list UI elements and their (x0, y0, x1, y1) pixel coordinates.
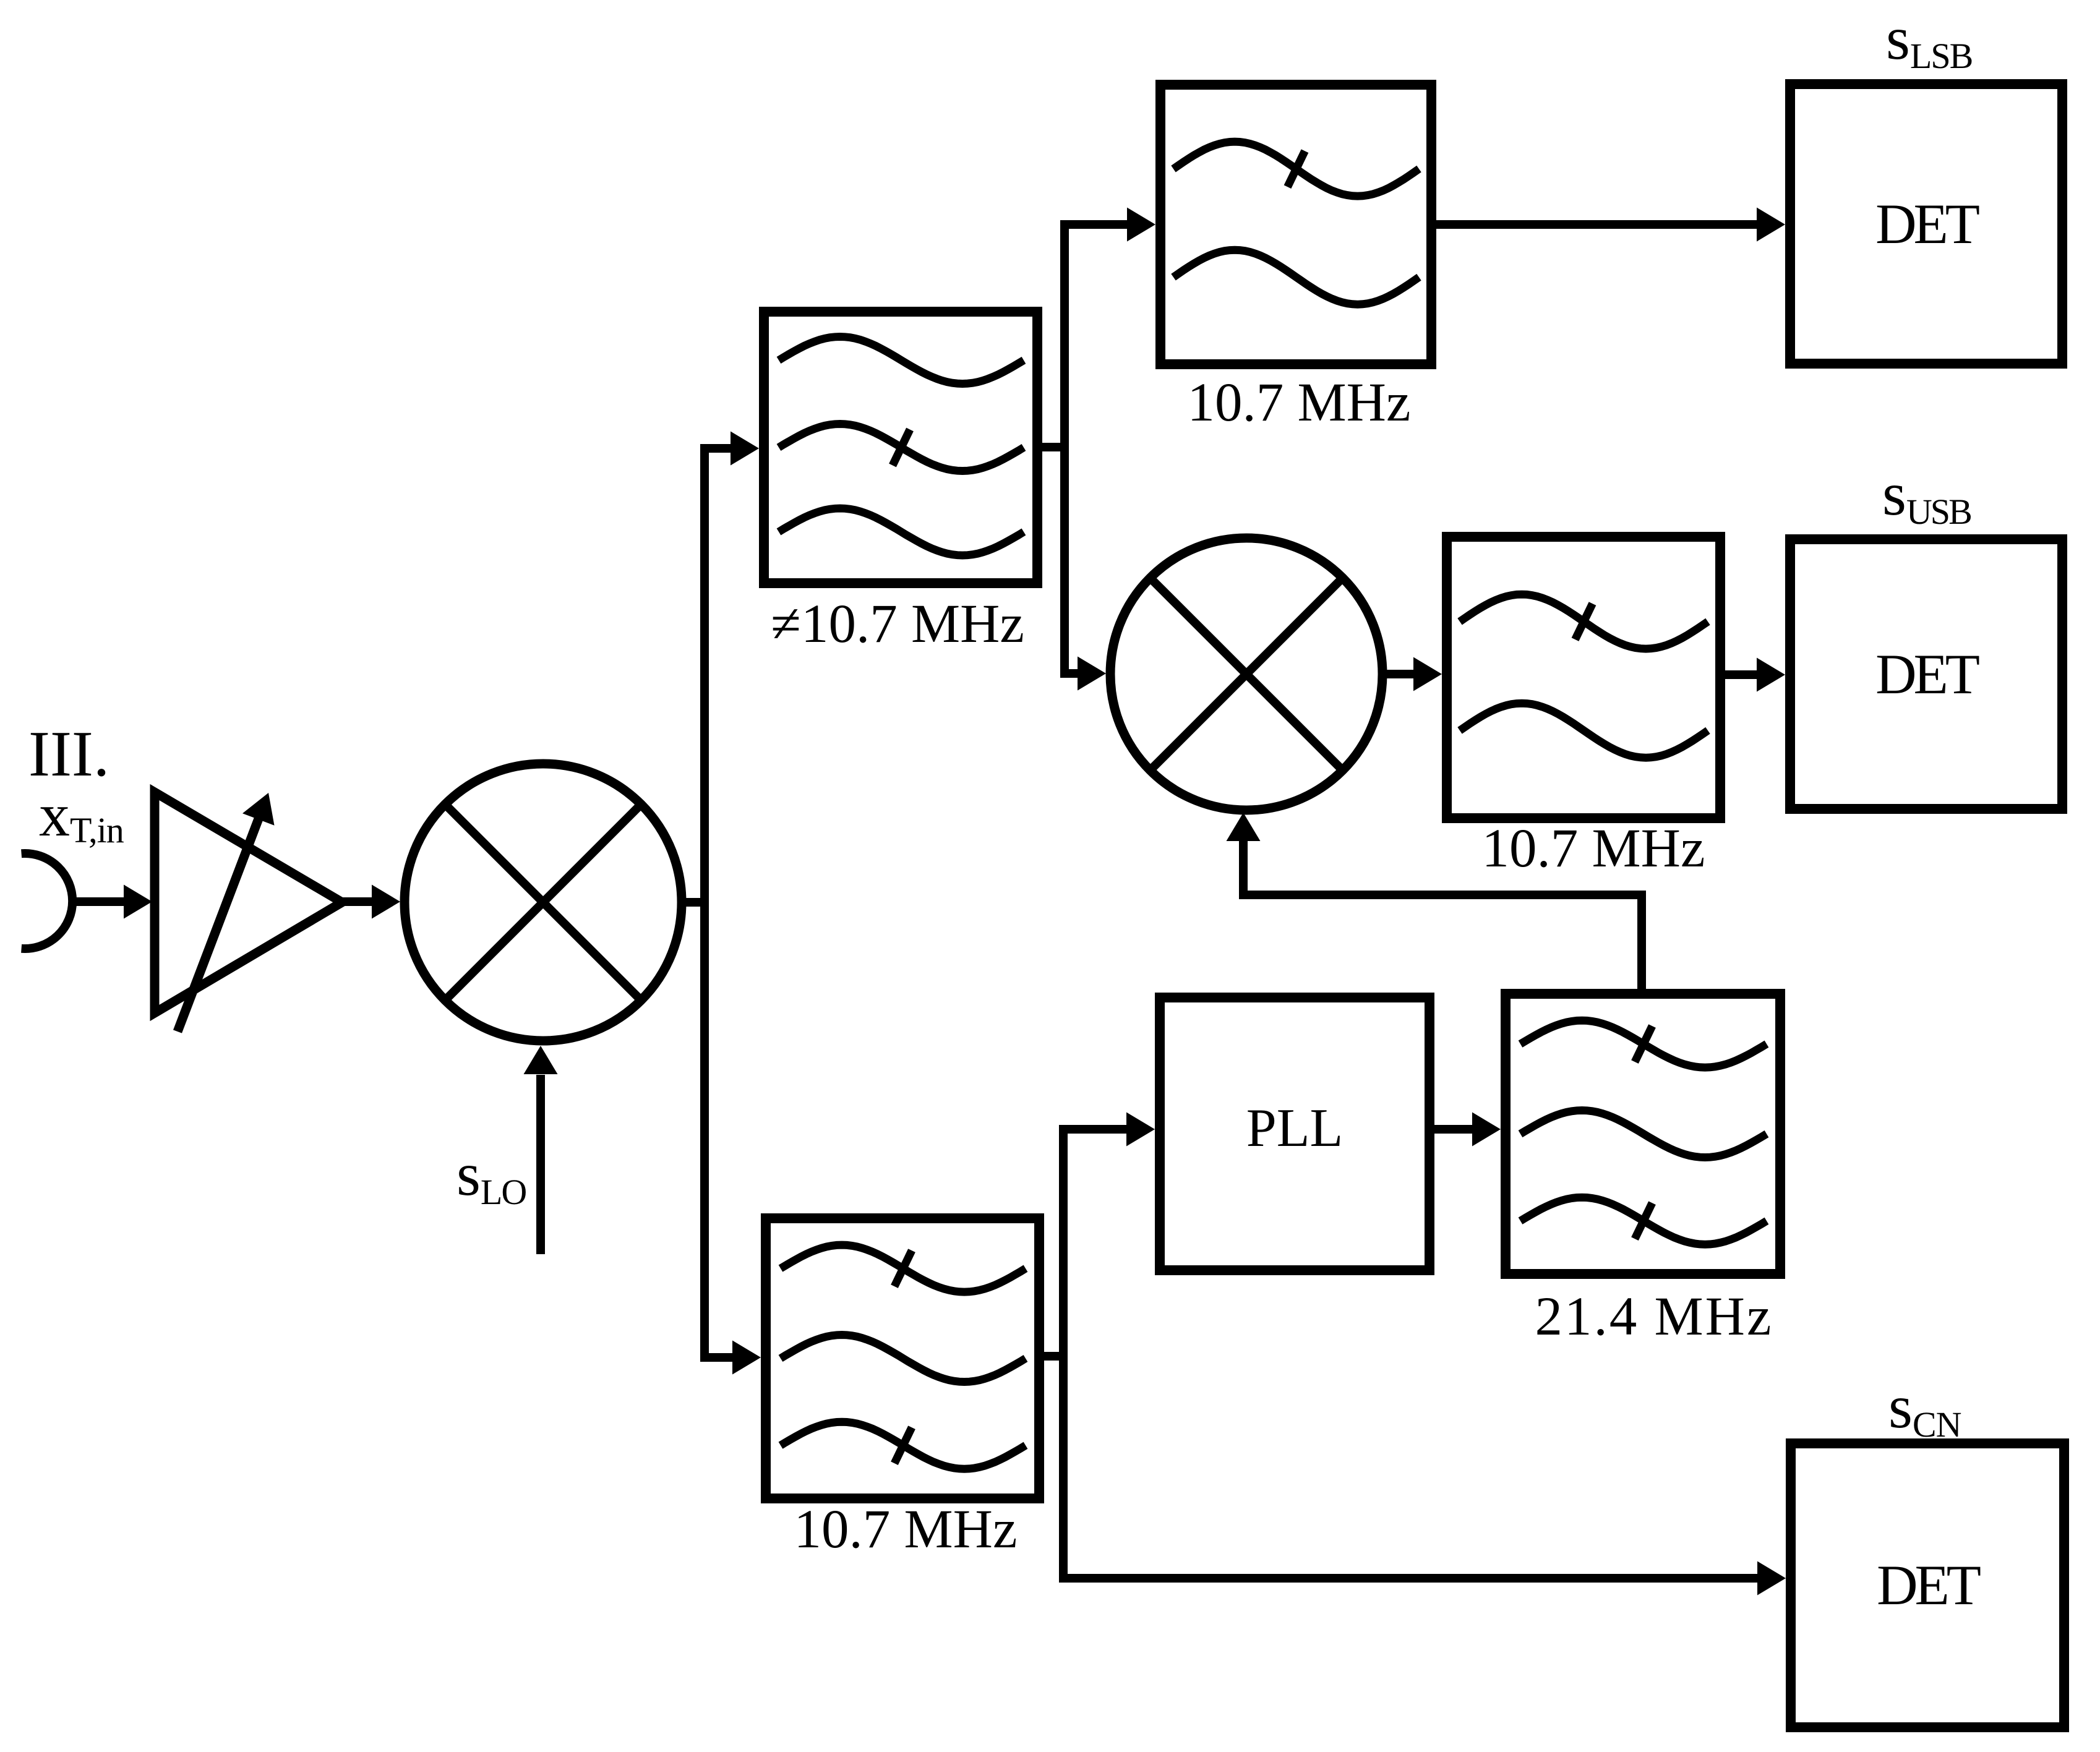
svg-text:DET: DET (1875, 643, 1979, 706)
wire: V2 top to low-pass filter F2 (1065, 220, 1128, 229)
wire: V1 bottom to band-pass filter F4 (705, 1353, 734, 1362)
wire: amplifier to mixer U1 (342, 897, 372, 906)
wire: mixer U1 output to branch (681, 898, 709, 907)
svg-text:10.7 MHz: 10.7 MHz (794, 1499, 1018, 1560)
wire: branch vertical V3 (1059, 1125, 1068, 1583)
wire: V3 bottom to detector DET3 (1063, 1574, 1759, 1583)
wire: F5 top to mixer U2 LO port (1243, 841, 1642, 989)
filter F2 low-pass 10.7 MHz (1160, 85, 1431, 364)
filter F3 low-pass 10.7 MHz (1447, 537, 1720, 818)
svg-text:≠10.7 MHz: ≠10.7 MHz (771, 594, 1024, 654)
svg-text:DET: DET (1875, 192, 1979, 255)
wire: input to amplifier (70, 897, 125, 906)
svg-text:10.7 MHz: 10.7 MHz (1188, 372, 1411, 433)
svg-text:xT,in: xT,in (39, 780, 124, 850)
wire: branch vertical V1 (700, 444, 709, 1362)
wire: mixer U2 to low-pass filter F3 (1382, 670, 1415, 678)
filter F1 band-stop (notch) (764, 312, 1037, 583)
PLL block (1160, 998, 1429, 1270)
svg-text:sLO: sLO (456, 1140, 526, 1212)
svg-text:sCN: sCN (1888, 1372, 1961, 1445)
mixer U2 (1110, 538, 1382, 810)
wire: F2 to detector DET1 (1436, 220, 1758, 229)
filter F5 band-pass 21.4 MHz (1506, 994, 1780, 1274)
mixer U1 (405, 764, 682, 1041)
wire: PLL to band-pass filter F5 (1434, 1125, 1473, 1134)
svg-text:DET: DET (1877, 1553, 1981, 1617)
detector DET2 (1790, 539, 2062, 809)
wire: V1 to band-stop filter F1 (705, 444, 732, 453)
svg-text:III.: III. (28, 717, 109, 790)
svg-text:sUSB: sUSB (1882, 459, 1971, 532)
filter F4 band-pass 10.7 MHz (766, 1218, 1039, 1498)
wire: branch vertical V2 (1060, 220, 1069, 678)
detector DET3 (1791, 1443, 2064, 1727)
detector DET1 (1790, 84, 2062, 364)
wire: F4 output to branch V3 (1044, 1352, 1068, 1361)
svg-text:PLL: PLL (1246, 1098, 1343, 1158)
svg-text:sLSB: sLSB (1886, 4, 1972, 76)
svg-text:21.4 MHz: 21.4 MHz (1535, 1286, 1773, 1347)
wire: F3 to detector DET2 (1725, 670, 1758, 679)
input port (antenna arc) (22, 853, 73, 949)
wire: s_LO input arrow (536, 1075, 545, 1254)
wire: V2 bottom to mixer U2 (1065, 669, 1079, 678)
wire: V3 top to PLL (1063, 1125, 1128, 1134)
wire: F1 output to branch V2 (1042, 443, 1069, 451)
svg-text:10.7 MHz: 10.7 MHz (1482, 818, 1705, 879)
amplifier A1 (variable gain) (155, 792, 342, 1013)
